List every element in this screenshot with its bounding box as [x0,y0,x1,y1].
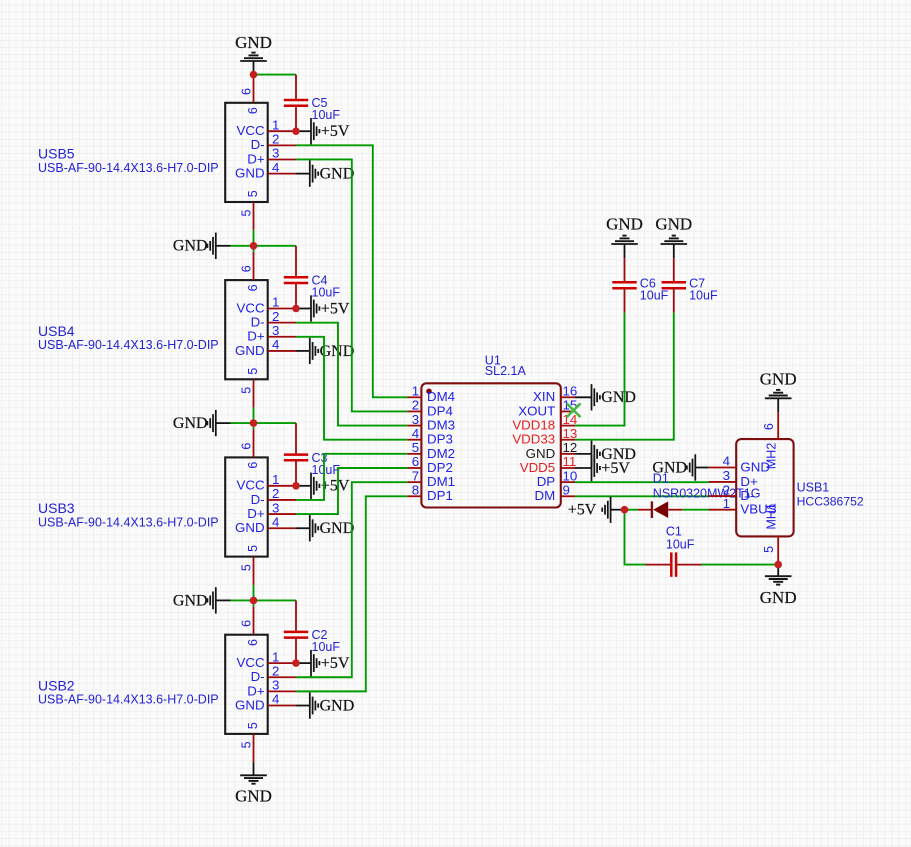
svg-text:VDD5: VDD5 [520,460,555,475]
capacitor C3 [284,423,308,486]
USB3 pin 5 (bottom) [253,557,255,585]
svg-text:DP4: DP4 [427,403,453,418]
ground net flag GND left of USB3 [173,410,216,436]
wire U1 DP to USB1 D+ [575,481,709,483]
wire VCC to +5V flag [296,130,311,132]
svg-text:+5V: +5V [601,460,630,477]
svg-text:5: 5 [239,209,253,216]
USB1 pin 1 stub [709,509,737,511]
wire U1 VDD5 to +5V flag [575,467,592,469]
wire USB3 pin5 down to junction [253,585,255,601]
USB2 pin 2 (D-) stub [268,676,296,678]
USB5 pin 6 (top) [253,75,255,103]
junction dot at USB3 VCC [292,482,300,490]
capacitor C7 [662,258,686,312]
svg-text:DM4: DM4 [427,389,455,404]
ground net flag GND at USB4 pin4 [310,338,354,364]
svg-text:10uF: 10uF [666,538,695,552]
ground net flag GND left of USB2 [173,587,216,613]
ground earth below USB1 [765,576,792,584]
svg-text:6: 6 [412,454,419,469]
U1 pin 5 stub [407,453,421,455]
svg-text:VCC: VCC [237,655,265,670]
USB4 pin 2 (D-) stub [268,322,296,324]
junction dot at USB5 VCC [292,127,300,135]
USB1 pin 6 (top) [777,412,779,439]
ground earth above USB1 [765,390,792,398]
wire U1 VDD18 to C6 [575,312,625,425]
junction dot at USB4 VCC [292,305,300,313]
USB1 pin 3 stub [709,481,737,483]
svg-text:12: 12 [563,440,578,455]
svg-text:2: 2 [412,398,419,413]
svg-text:GND: GND [235,520,265,535]
svg-text:USB5: USB5 [38,146,75,162]
svg-text:5: 5 [412,440,419,455]
svg-text:6: 6 [246,462,260,469]
svg-text:USB-AF-90-14.4X13.6-H7.0-DIP: USB-AF-90-14.4X13.6-H7.0-DIP [38,693,219,707]
svg-text:10: 10 [563,468,578,483]
wire VCC to +5V flag [296,485,311,487]
svg-text:6: 6 [246,639,260,646]
svg-text:GND: GND [173,592,208,609]
USB2 pin 6 (top) [253,606,255,634]
power net flag +5V at USB5 VCC [311,118,350,144]
USB5 pin 3 (D+) stub [268,158,296,160]
USB5 pin 4 (GND) stub [268,173,296,175]
svg-text:8: 8 [412,482,419,497]
svg-text:1: 1 [412,384,419,399]
wire USB4 D+ to U1 DP3 [296,337,407,440]
svg-text:GND: GND [235,343,265,358]
svg-text:DP3: DP3 [427,432,453,447]
svg-text:10uF: 10uF [312,463,341,477]
svg-text:GND: GND [526,446,556,461]
svg-text:GND: GND [320,166,355,183]
wire USB1 GND pin to flag [695,467,708,469]
connector USB3 body [225,457,268,556]
capacitor C1 (horizontal) [646,552,702,576]
USB3 pin 2 (D-) stub [268,499,296,501]
capacitor C6 [612,258,636,312]
svg-text:D+: D+ [247,506,265,521]
wire USB2 pin5 to bottom ground [253,762,255,775]
ground net flag GND at USB1 pin 4 [652,454,695,480]
wire ground to C7 [673,244,675,258]
junction dot +5V/D1/C1 [621,506,629,514]
svg-text:DM2: DM2 [427,446,455,461]
USB2 pin 5 (bottom) [253,734,255,762]
USB3 pin 1 (VCC) stub [268,485,296,487]
svg-text:4: 4 [272,514,279,529]
wire +5V junction down to C1 [625,510,646,565]
ground earth above C6 [611,236,638,244]
svg-text:+5V: +5V [321,300,350,317]
svg-text:GND: GND [235,166,265,181]
svg-text:9: 9 [563,482,570,497]
svg-text:6: 6 [239,265,253,272]
capacitor C4 [284,246,308,309]
U1 origin dot [426,389,432,395]
svg-text:13: 13 [563,426,578,441]
svg-text:3: 3 [412,412,419,427]
svg-text:10uF: 10uF [312,108,341,122]
svg-text:+5V: +5V [321,478,350,495]
svg-text:D+: D+ [247,683,265,698]
wire U1 DM to USB1 D- [575,495,709,497]
svg-text:11: 11 [563,454,577,469]
U1 pin 8 stub [407,495,421,497]
wire ground to C6 [624,244,626,258]
svg-text:3: 3 [272,146,279,161]
ground net flag GND left of USB4 [173,233,216,259]
svg-text:4: 4 [412,426,419,441]
connector USB1 body (HCC386752) [736,439,793,536]
wire junction to capacitor C5 [254,74,297,76]
no-connect X at U1 pin 15 [567,403,581,417]
U1 pin 3 stub [407,425,421,427]
svg-text:USB4: USB4 [38,323,75,339]
svg-text:VDD18: VDD18 [512,417,555,432]
svg-text:2: 2 [272,132,279,147]
wire USB4 GND pin to flag [296,350,310,352]
ground earth bottom (below USB2) [240,775,267,783]
USB5 pin 2 (D-) stub [268,144,296,146]
junction dot at USB3 top [250,419,258,427]
svg-text:5: 5 [239,387,253,394]
wire USB3 GND pin to flag [296,527,310,529]
USB4 pin 5 (bottom) [253,379,255,407]
ground net flag GND at U1 pin 16 [592,384,636,410]
svg-text:5: 5 [762,546,776,553]
svg-text:D-: D- [251,669,265,684]
wire U1 GND to flag [575,453,592,455]
svg-text:DM1: DM1 [427,474,455,489]
U1 pin 6 stub [407,467,421,469]
svg-text:GND: GND [655,214,692,233]
svg-text:10uF: 10uF [312,286,341,300]
USB3 pin 6 (top) [253,429,255,457]
svg-text:USB2: USB2 [38,678,75,694]
USB5 pin 1 (VCC) stub [268,130,296,132]
svg-text:GND: GND [760,370,797,389]
svg-text:16: 16 [563,384,578,399]
svg-text:2: 2 [272,309,279,324]
svg-text:3: 3 [272,323,279,338]
wire GND flag to USB3 junction [216,422,231,424]
wire GND flag to USB4 junction [216,245,231,247]
USB4 pin 4 (GND) stub [268,350,296,352]
svg-text:MH1: MH1 [764,503,778,529]
svg-text:5: 5 [246,368,260,375]
wire USB2 D- to U1 DM1 [296,482,407,677]
svg-text:4: 4 [723,454,730,469]
svg-text:D+: D+ [247,151,265,166]
svg-text:6: 6 [239,620,253,627]
op-amp U1 body (SL2.1A hub controller) [421,383,560,507]
USB1 pin 2 stub [709,495,737,497]
wire USB5 D+ to U1 DP4 [296,159,407,411]
USB4 pin 1 (VCC) stub [268,308,296,310]
wire USB2 D+ to U1 DP1 [296,496,407,691]
wire USB3 D+ to U1 DP2 [296,468,407,514]
svg-text:XIN: XIN [533,389,555,404]
USB5 pin 5 (bottom) [253,202,255,230]
svg-text:6: 6 [239,443,253,450]
svg-text:GND: GND [760,588,797,607]
USB1 pin 5 (bottom) [777,536,779,564]
svg-text:D+: D+ [247,329,265,344]
svg-text:USB-AF-90-14.4X13.6-H7.0-DIP: USB-AF-90-14.4X13.6-H7.0-DIP [38,161,219,175]
U1 pin 1 stub [407,396,421,398]
wire junction to capacitor C4 [254,245,297,247]
svg-text:1: 1 [272,472,279,487]
svg-text:6: 6 [762,423,776,430]
junction dot at USB1 pin5 [774,561,782,569]
power net flag +5V at USB2 VCC [311,650,350,676]
U1 pin 9 stub [561,495,575,497]
svg-text:MH2: MH2 [764,443,778,469]
USB4 pin 6 (top) [253,252,255,280]
svg-text:USB-AF-90-14.4X13.6-H7.0-DIP: USB-AF-90-14.4X13.6-H7.0-DIP [38,515,219,529]
svg-text:GND: GND [320,697,355,714]
svg-text:10uF: 10uF [312,640,341,654]
svg-text:6: 6 [246,107,260,114]
wire USB2 pin6 to junction [253,600,255,606]
svg-text:DM3: DM3 [427,417,455,432]
svg-text:DM: DM [535,488,556,503]
svg-text:2: 2 [272,663,279,678]
svg-text:1: 1 [272,295,279,310]
svg-text:VCC: VCC [237,300,265,315]
svg-text:+5V: +5V [321,655,350,672]
svg-text:GND: GND [652,459,687,476]
junction dot at USB4 top [250,242,258,250]
USB3 pin 3 (D+) stub [268,513,296,515]
wire USB4 pin6 to junction [253,246,255,252]
svg-text:3: 3 [272,678,279,693]
diode D1 NSR0320MW2T1G [638,501,683,518]
wire ground to USB1 pin6 [777,398,779,412]
wire +5V flag to junction [611,509,625,511]
svg-text:5: 5 [239,741,253,748]
wire U1 VDD33 to C7 [575,312,674,439]
connector USB2 body [225,635,268,734]
wire VCC to +5V flag [296,308,311,310]
ground earth above C7 [661,236,688,244]
svg-text:DP1: DP1 [427,488,453,503]
svg-text:+5V: +5V [568,502,597,519]
USB4 pin 3 (D+) stub [268,336,296,338]
wire USB5 pin5 down to junction [253,230,255,246]
wire USB4 D- to U1 DM3 [296,323,407,426]
U1 pin 11 stub [561,467,575,469]
svg-text:4: 4 [272,337,279,352]
USB2 pin 1 (VCC) stub [268,662,296,664]
svg-text:GND: GND [235,697,265,712]
wire USB2 GND pin to flag [296,705,310,707]
svg-text:7: 7 [412,468,419,483]
svg-text:10uF: 10uF [689,289,718,303]
power net flag +5V at USB4 VCC [311,295,350,321]
svg-text:USB3: USB3 [38,500,75,516]
svg-text:5: 5 [239,564,253,571]
U1 pin 15 stub [561,410,575,412]
connector USB4 body [225,280,268,379]
U1 pin 7 stub [407,481,421,483]
svg-text:1: 1 [272,649,279,664]
svg-text:4: 4 [272,160,279,175]
svg-text:1: 1 [723,496,730,511]
wire junction to D1 cathode [625,509,638,511]
ground net flag GND at USB2 pin4 [310,692,354,718]
USB3 pin 4 (GND) stub [268,527,296,529]
svg-text:5: 5 [246,190,260,197]
wire USB5 D- to U1 DM4 [296,145,407,397]
svg-text:3: 3 [272,500,279,515]
connector USB5 body [225,103,268,202]
svg-text:USB-AF-90-14.4X13.6-H7.0-DIP: USB-AF-90-14.4X13.6-H7.0-DIP [38,338,219,352]
wire U1 XIN to GND flag [575,396,592,398]
junction dot at USB2 top [250,597,258,605]
svg-text:HCC386752: HCC386752 [797,495,864,509]
USB1 pin 4 stub [709,467,737,469]
capacitor C2 [284,600,308,663]
U1 pin 14 stub [561,425,575,427]
wire D1 anode to USB1 VBUS [682,509,708,511]
wire junction to capacitor C3 [254,422,297,424]
capacitor C5 [284,75,308,132]
svg-text:GND: GND [173,415,208,432]
svg-text:XOUT: XOUT [518,403,555,418]
svg-text:5: 5 [246,722,260,729]
U1 pin 16 stub [561,396,575,398]
ground net flag GND at U1 pin 12 [592,441,636,467]
svg-text:GND: GND [173,238,208,255]
svg-text:USB1: USB1 [797,481,830,495]
power net flag +5V at U1 pin 11 [592,455,631,481]
svg-text:D-: D- [251,315,265,330]
svg-text:+5V: +5V [321,123,350,140]
wire junction to capacitor C2 [254,599,297,601]
U1 pin 4 stub [407,439,421,441]
wire USB5 GND pin to flag [296,173,310,175]
svg-text:GND: GND [601,389,636,406]
U1 pin 12 stub [561,453,575,455]
wire top ground lead [253,61,255,75]
ground net flag GND at USB3 pin4 [310,515,354,541]
svg-text:C1: C1 [666,525,682,539]
ground earth top (above USB5) [240,53,267,61]
wire USB1 pin5 to bottom ground [777,565,779,577]
junction dot at USB2 VCC [292,659,300,667]
power net flag +5V at USB3 VCC [311,473,350,499]
svg-text:SL2.1A: SL2.1A [485,364,527,378]
svg-text:VCC: VCC [237,478,265,493]
U1 pin 13 stub [561,439,575,441]
wire USB3 D- to U1 DM2 [296,454,407,500]
svg-text:10uF: 10uF [640,289,669,303]
svg-text:3: 3 [723,468,730,483]
svg-text:5: 5 [246,545,260,552]
USB2 pin 4 (GND) stub [268,705,296,707]
svg-text:6: 6 [246,284,260,291]
U1 pin 2 stub [407,410,421,412]
wire GND flag to USB2 junction [216,599,231,601]
svg-text:GND: GND [320,520,355,537]
svg-text:D+: D+ [740,474,758,489]
svg-text:6: 6 [239,88,253,95]
wire C1 to USB1 pin5 junction [702,564,779,566]
wire USB3 pin6 to junction [253,423,255,429]
junction dot at USB5 top [250,71,258,79]
svg-text:VCC: VCC [237,123,265,138]
svg-text:VDD33: VDD33 [512,432,555,447]
USB2 pin 3 (D+) stub [268,690,296,692]
svg-text:4: 4 [272,692,279,707]
wire USB4 pin5 down to junction [253,408,255,424]
U1 pin 10 stub [561,481,575,483]
ground net flag GND at USB5 pin4 [310,160,354,186]
power net flag +5V at D1 cathode [568,497,611,523]
svg-text:1: 1 [272,117,279,132]
svg-text:GND: GND [235,787,272,806]
svg-text:D-: D- [251,137,265,152]
svg-text:GND: GND [235,33,272,52]
svg-text:2: 2 [272,486,279,501]
svg-text:DP2: DP2 [427,460,453,475]
svg-text:GND: GND [606,214,643,233]
svg-text:D-: D- [251,492,265,507]
wire VCC to +5V flag [296,662,311,664]
svg-text:DP: DP [537,474,556,489]
